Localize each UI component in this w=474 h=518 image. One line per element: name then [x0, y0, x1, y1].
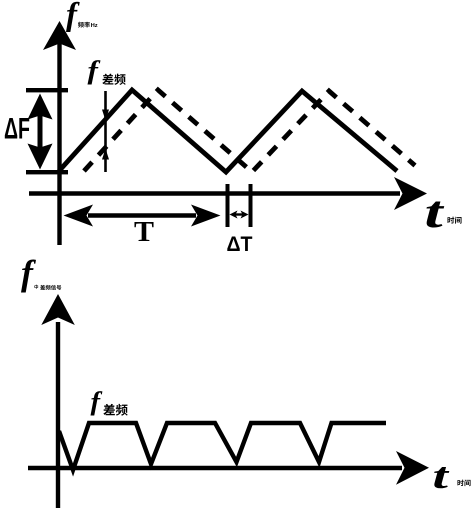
- T period double-headed arrow: [64, 205, 221, 227]
- beat-frequency measurement arrow (between solid and dashed): [102, 91, 109, 172]
- f差频 label (bottom chart): [91, 387, 128, 416]
- y-axis label f 频率Hz: [66, 0, 98, 33]
- x-axis (top chart, time axis): [29, 177, 427, 210]
- ΔF double-headed arrow: [28, 94, 53, 170]
- svg-text:ΔF: ΔF: [4, 113, 30, 146]
- ΔT small double-headed arrow: [230, 211, 249, 219]
- svg-text:ΔT: ΔT: [227, 233, 253, 256]
- x-axis label t 时间 (bottom): [433, 456, 471, 497]
- x-axis (bottom chart, time axis): [28, 451, 429, 485]
- beat frequency waveform (trapezoidal pulses): [59, 423, 386, 470]
- ΔT tick 2: [249, 184, 253, 227]
- lower tick (base frequency level): [26, 170, 68, 174]
- dashed triangular wave (received echo, delayed): [84, 90, 415, 172]
- upper tick (peak frequency level): [26, 88, 68, 92]
- f差频 label (top chart): [88, 56, 126, 85]
- svg-text:t: t: [433, 456, 451, 497]
- y-axis label f中 差频信号 (bottom): [21, 253, 61, 293]
- ΔT tick 1: [226, 184, 230, 227]
- y-axis (bottom chart, beat signal axis): [41, 294, 75, 508]
- solid triangular wave (transmitted signal): [59, 90, 397, 172]
- y-axis (top chart, frequency axis): [43, 21, 76, 245]
- x-axis label t 时间 (top): [425, 188, 462, 238]
- svg-text:t: t: [425, 188, 445, 238]
- svg-text:T: T: [134, 217, 154, 248]
- svg-text:Hz: Hz: [91, 23, 98, 29]
